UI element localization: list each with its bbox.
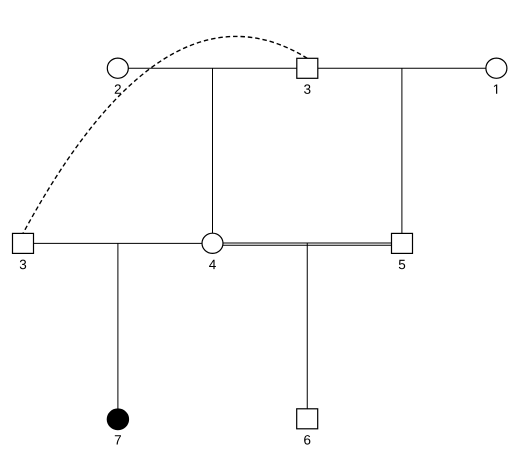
label: id 3 (left)	[20, 260, 26, 270]
person 3 (first copy): male square, top row	[297, 58, 318, 78]
wire: mating line 3-4 (second row, single)	[34, 242, 203, 244]
person 4: female circle, second row	[202, 233, 223, 253]
label: id 3 (top)	[304, 84, 310, 94]
label: id 7	[115, 435, 121, 444]
wire: consanguineous double mating line 4-5 (upper)	[223, 242, 392, 244]
label: id 2	[115, 84, 121, 93]
person 1: female circle, top row right	[486, 58, 507, 78]
dashed arc joining the two plotted copies of person 3	[23, 36, 307, 233]
person 2: female circle, top row	[107, 58, 128, 78]
label: id 6	[304, 435, 310, 445]
wire: consanguineous double mating line 4-5 (lower)	[223, 244, 392, 246]
person 3 (second copy): male square, second row left	[13, 233, 34, 253]
label: id 1	[494, 85, 497, 94]
wire: descent line from mating 2-3 down to person 4	[212, 68, 214, 233]
wire: descent line from mating 3-1 down to person 5	[401, 68, 403, 233]
label: id 5	[399, 260, 405, 269]
label: id 4	[209, 260, 216, 269]
wire: mating line 2-3 (left segment)	[128, 67, 296, 69]
wire: mating line 3-1 (right segment)	[318, 67, 486, 69]
wire: descent line from mating 3-4 down to person 7	[117, 243, 119, 409]
person 5: male square, second row	[392, 233, 413, 253]
wire: descent line from mating 4-5 down to person 6	[306, 243, 308, 409]
person 7: affected female, filled circle, bottom row	[107, 409, 128, 430]
person 6: male square, bottom row	[297, 409, 318, 429]
